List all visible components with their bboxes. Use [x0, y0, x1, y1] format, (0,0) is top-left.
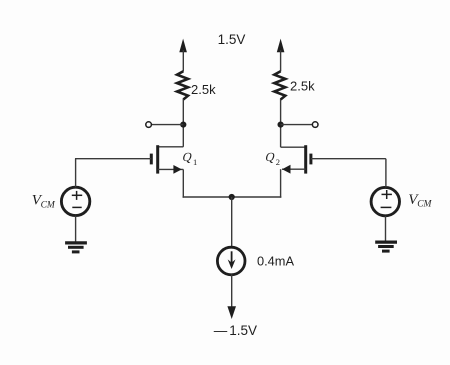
ground left	[65, 243, 87, 252]
transistor Q2	[281, 145, 311, 173]
svg-text:—: —	[214, 323, 228, 338]
node: tail junction	[229, 194, 235, 200]
VSS arrow	[227, 306, 236, 319]
svg-text:1.5V: 1.5V	[218, 32, 246, 47]
wire: R2 bottom to Q2 drain	[280, 99, 282, 147]
value label 2.5k (right)	[290, 78, 315, 93]
supply label 1.5V	[218, 32, 246, 47]
node: left output junction	[180, 122, 186, 128]
label VCM right	[408, 192, 432, 210]
wire: left VCM up to gate	[75, 159, 77, 188]
svg-text:Q: Q	[264, 150, 276, 164]
svg-text:1: 1	[193, 157, 197, 167]
wire: right VCM up to gate	[385, 159, 387, 188]
svg-text:Q: Q	[181, 150, 193, 164]
VDD arrow right	[277, 39, 285, 72]
wire: Q1 gate to left VCM	[75, 158, 151, 160]
wire: R1 bottom to Q1 drain	[182, 99, 184, 147]
wire: current source to VSS	[231, 274, 233, 307]
value label 0.4mA	[257, 253, 294, 268]
transistor Q1	[151, 145, 183, 174]
svg-text:2.5k: 2.5k	[290, 78, 315, 93]
wire: right VCM to ground	[385, 216, 387, 242]
svg-text:1.5V: 1.5V	[229, 323, 257, 338]
svg-text:2.5k: 2.5k	[191, 82, 216, 97]
wire: left junction to output terminal	[152, 124, 184, 126]
svg-text:0.4mA: 0.4mA	[257, 253, 294, 268]
svg-text:CM: CM	[41, 200, 56, 210]
value label 2.5k (left)	[191, 82, 216, 97]
voltage source VCM left	[61, 187, 89, 215]
wire: Q1 source down to tail	[182, 169, 184, 197]
current source I1	[217, 247, 245, 275]
label Q1	[181, 150, 197, 167]
wire: right junction to output terminal	[281, 124, 313, 126]
label Q2	[264, 150, 280, 167]
terminal: right output (open circle)	[312, 122, 318, 128]
resistor R2 2.5k (right)	[274, 71, 285, 99]
wire: Q2 source down to tail	[280, 169, 282, 198]
label VCM left	[32, 192, 56, 210]
resistor R1 2.5k (left)	[177, 71, 188, 99]
terminal: left output (open circle)	[146, 122, 152, 128]
svg-text:CM: CM	[417, 200, 432, 210]
VDD arrow left	[179, 39, 187, 72]
supply label -1.5V	[214, 323, 257, 338]
wire: Q2 gate to right VCM	[311, 158, 386, 160]
wire: tail horizontal	[183, 196, 282, 198]
wire: left VCM to ground	[75, 216, 77, 243]
wire: tail to current source	[231, 197, 233, 247]
node: right output junction	[278, 122, 284, 128]
voltage source VCM right	[371, 187, 399, 215]
svg-text:2: 2	[276, 157, 280, 167]
ground right	[375, 242, 397, 251]
